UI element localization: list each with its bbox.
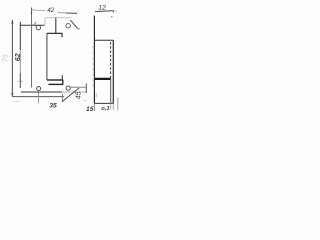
cutout top edge [47,33,62,37]
svg-text:15: 15 [86,106,94,113]
plate top edge [20,24,44,26]
faint dash-dot near left edge [92,46,94,90]
svg-text:45: 45 [76,91,83,99]
plate bottom edge [21,91,62,93]
bottom edge extension to lip [62,91,86,93]
hidden hole line (dashed) [110,42,112,79]
svg-text:62: 62 [13,53,22,61]
cutout bottom bar lower line [49,83,63,85]
extension below hole centerline [37,93,39,104]
small circle top right [66,24,70,28]
side view step line [94,39,113,41]
diagonal end tick [77,28,81,30]
leader diagonal to hole [62,88,79,102]
cutout bottom bar top line [47,79,63,81]
far right small dim line [117,98,119,111]
horizontal leader line [71,86,87,88]
faint vertical joining top edge to lip top line [44,18,46,26]
side view left edge [93,16,95,104]
42 dim line right part dark [66,12,77,14]
vertical x=55.8 (fold/extension) [55,18,57,34]
cutout bottom bar right cap [62,80,64,85]
side view right edge [112,40,114,103]
extension below plate right corner [61,94,63,101]
side view left extension below [93,103,95,111]
svg-text:42: 42 [47,7,55,14]
12 dim right hook [112,10,114,12]
lip top faint line [46,17,72,19]
screw hole bottom left [37,87,41,91]
dot near side view top right [111,16,112,17]
cutout left edge [46,33,48,80]
cutout bottom-right tick [61,75,63,80]
svg-text:o,1: o,1 [101,106,109,112]
fold line / extension x=31.5 [31,8,33,15]
svg-text:75: 75 [1,53,10,62]
inner face extension below [110,103,112,109]
thick line at hole bottom [95,78,111,80]
lip corner diagonal [70,20,77,28]
bottom dimension line 35 [12,96,64,98]
lip right tick [85,84,87,94]
42 dim line left part [31,9,45,12]
screw hole bottom (on lip) [66,86,70,90]
faint blob right of side view left edge [95,93,97,98]
slash at top-left corner [33,22,36,26]
left view: plate left edge [19,22,21,50]
svg-text:35: 35 [49,102,57,109]
42 dim line right part faint [58,12,67,14]
svg-text:12: 12 [98,5,106,12]
side view right extension below [112,103,114,110]
inner face line below [110,79,112,104]
screw hole top [36,25,40,29]
small dot near dim end [84,100,85,101]
tick on left edge [19,80,23,82]
left dimension line vertical [11,20,13,97]
side view bottom edge [94,102,113,104]
12 dim line [95,11,113,12]
